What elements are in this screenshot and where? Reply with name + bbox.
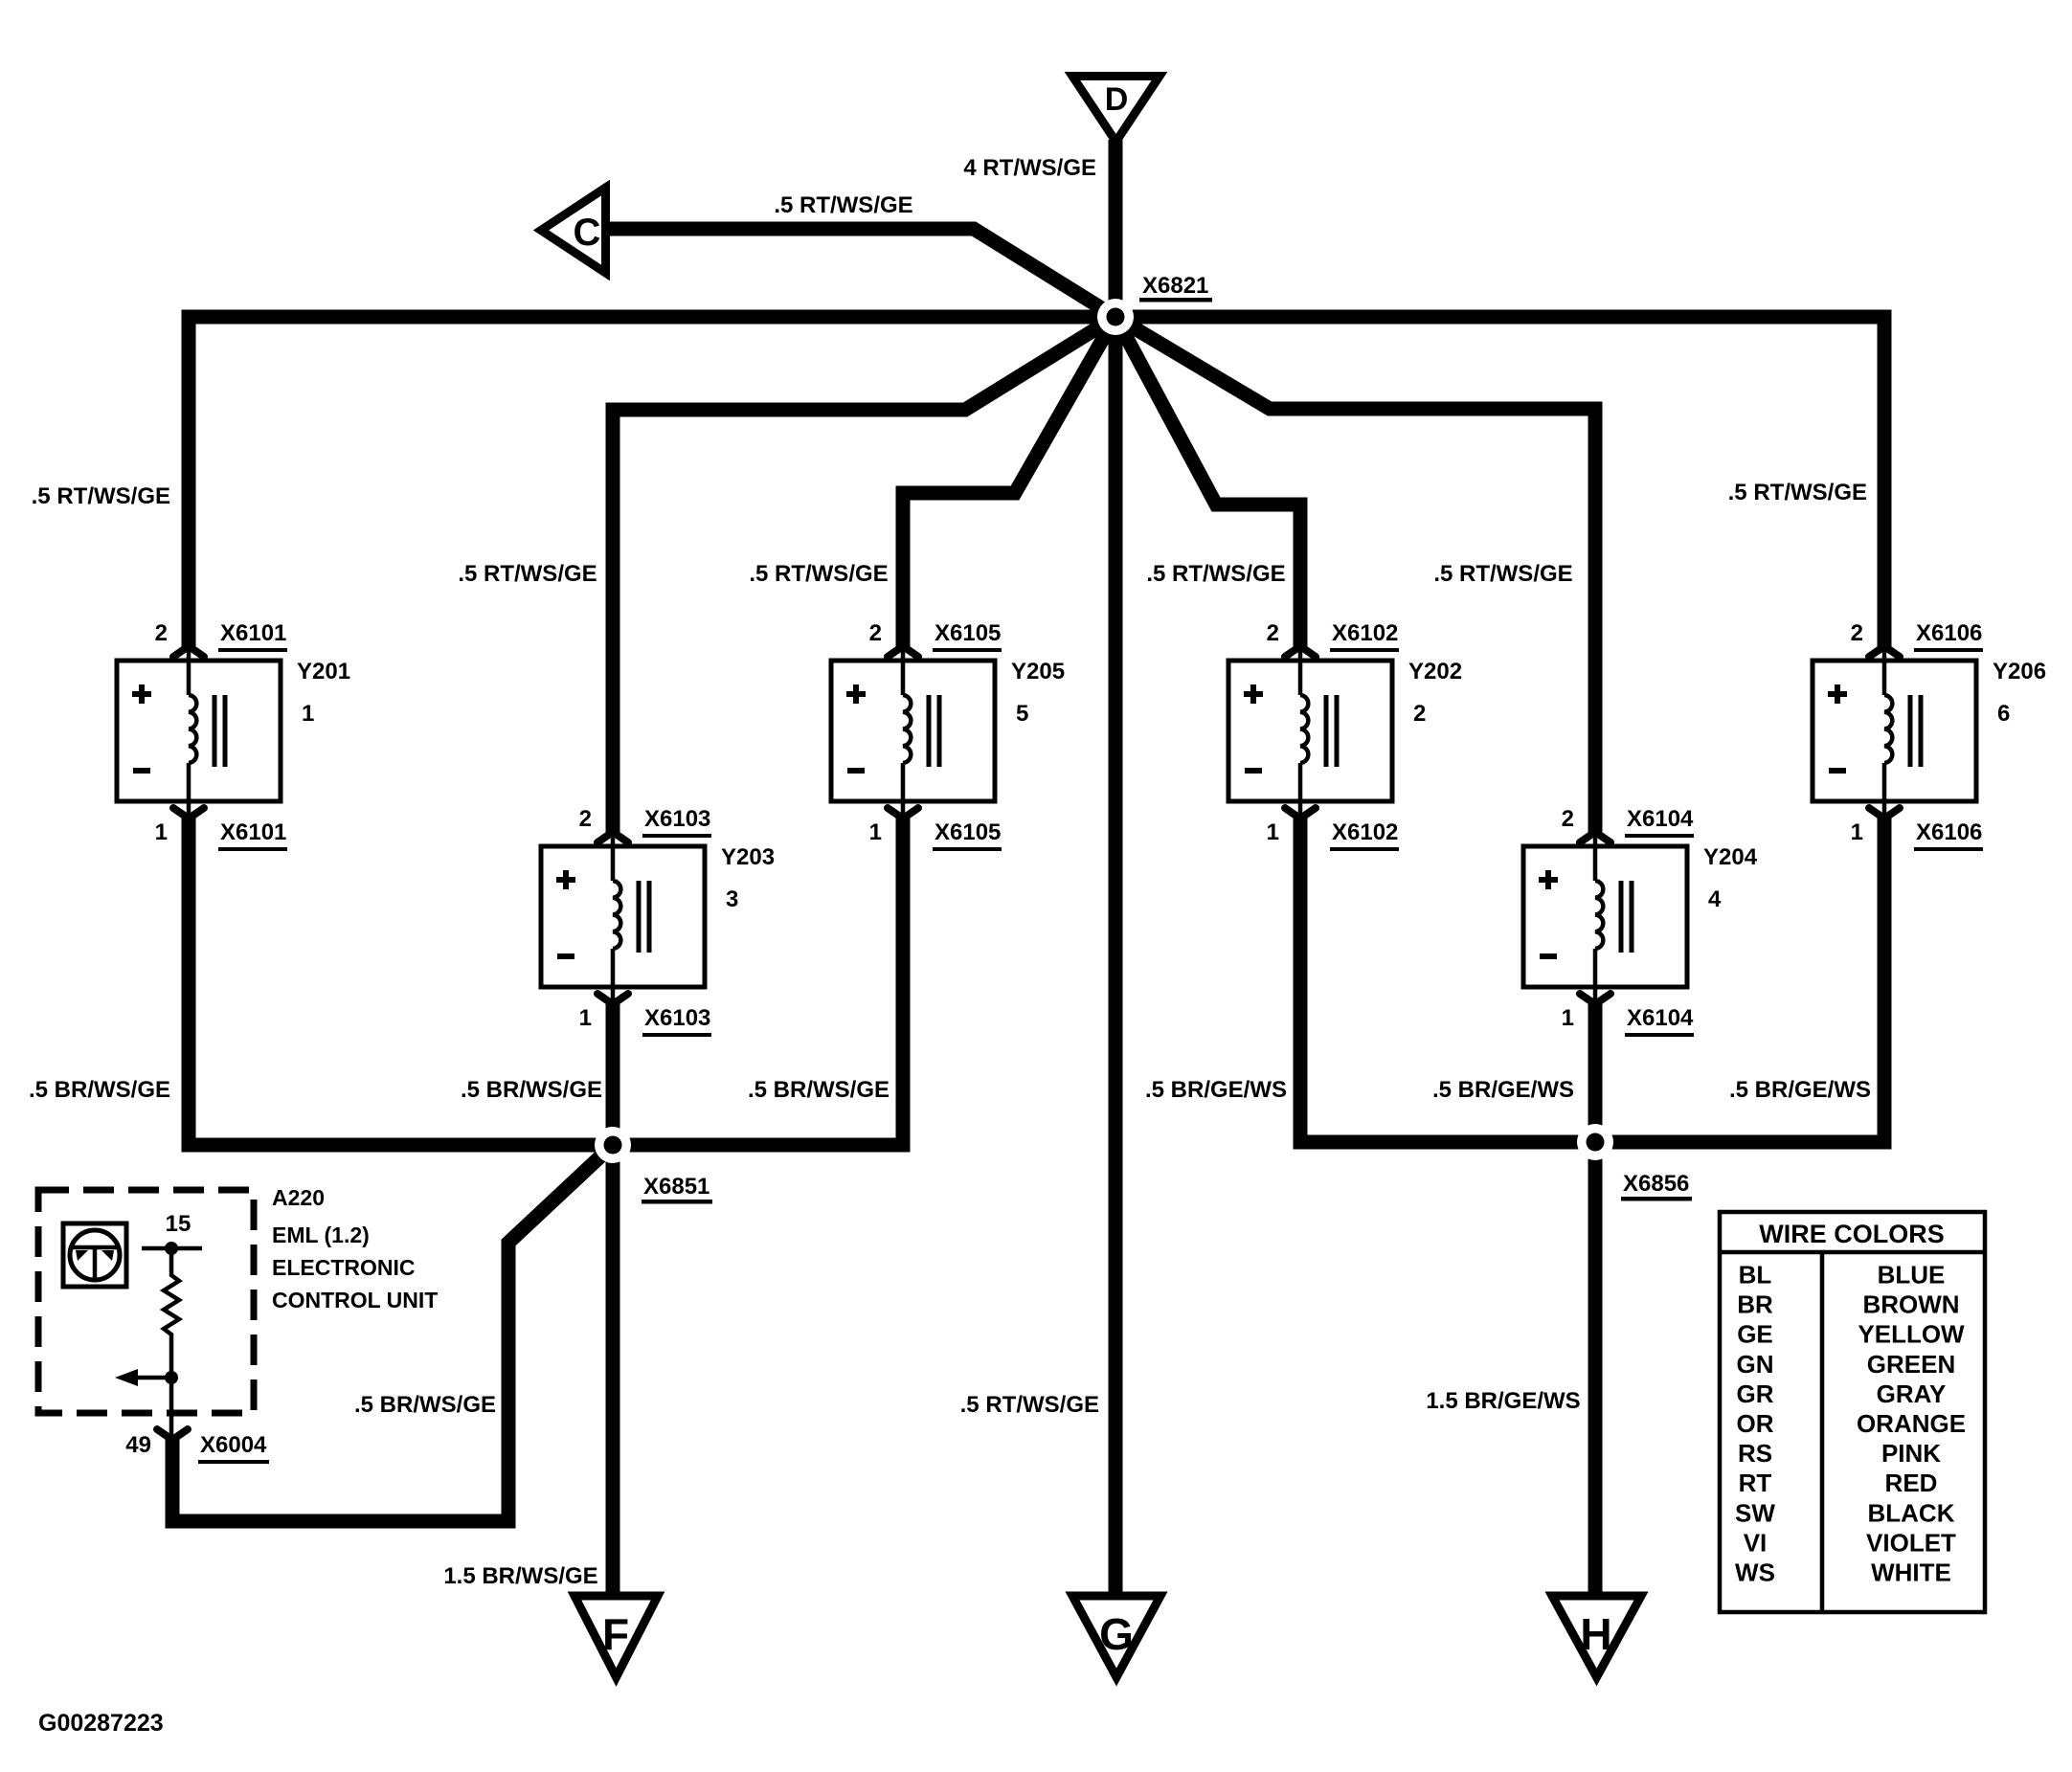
svg-text:GR: GR — [1737, 1379, 1774, 1408]
fuel injector Y203 (cylinder 3) — [541, 844, 775, 987]
svg-text:WS: WS — [1735, 1559, 1775, 1587]
wire .5 RT/WS/GE to Y202 pin 2 — [1115, 317, 1300, 646]
svg-text:D: D — [1105, 81, 1129, 118]
wire 4 RT/WS/GE trunk from D down to G — [1109, 140, 1123, 1594]
ECU internal node with arrow — [115, 1369, 178, 1386]
svg-text:BL: BL — [1739, 1261, 1772, 1290]
pin 2 connector X6104 of Y204 — [1562, 806, 1694, 846]
wire .5 RT/WS/GE right main to Y206 pin 2 — [1115, 317, 1884, 646]
svg-text:X6103: X6103 — [644, 1005, 710, 1031]
svg-text:X6856: X6856 — [1623, 1171, 1689, 1197]
svg-text:BLUE: BLUE — [1878, 1261, 1946, 1290]
svg-text:G00287223: G00287223 — [38, 1710, 164, 1737]
pin 1 connector X6103 of Y203 — [579, 987, 711, 1037]
svg-text:Y203: Y203 — [721, 844, 775, 870]
svg-text:GREEN: GREEN — [1867, 1350, 1955, 1379]
wire .5 BR/WS/GE left bus Y201 to X6851 to Y205 — [189, 817, 903, 1145]
connector arrow G — [1072, 1596, 1160, 1677]
svg-text:.5 RT/WS/GE: .5 RT/WS/GE — [1146, 561, 1285, 587]
svg-text:A220: A220 — [272, 1185, 325, 1210]
pin 1 connector X6105 of Y205 — [869, 801, 1002, 851]
svg-text:1.5 BR/WS/GE: 1.5 BR/WS/GE — [443, 1563, 597, 1589]
svg-text:WHITE: WHITE — [1871, 1559, 1951, 1587]
svg-text:Y204: Y204 — [1703, 844, 1758, 870]
svg-text:.5 BR/GE/WS: .5 BR/GE/WS — [1729, 1077, 1871, 1103]
wire .5 BR/GE/WS Y204 pin 1 to X6856 — [1588, 1002, 1603, 1142]
svg-text:.5 RT/WS/GE: .5 RT/WS/GE — [1728, 480, 1867, 505]
svg-text:SW: SW — [1735, 1498, 1775, 1527]
svg-text:.5 BR/WS/GE: .5 BR/WS/GE — [461, 1077, 602, 1103]
svg-text:2: 2 — [869, 620, 882, 646]
svg-text:.5 BR/WS/GE: .5 BR/WS/GE — [354, 1392, 496, 1418]
svg-text:X6101: X6101 — [220, 819, 286, 845]
wire .5 BR/WS/GE Y203 pin 1 to X6851 — [606, 1002, 620, 1145]
svg-text:X6821: X6821 — [1142, 273, 1208, 299]
fuel injector Y202 (cylinder 2) — [1228, 659, 1462, 801]
connector arrow D — [1072, 77, 1160, 143]
wire colors legend table — [1720, 1212, 1985, 1612]
svg-text:2: 2 — [1267, 620, 1279, 646]
svg-text:2: 2 — [1851, 620, 1863, 646]
svg-text:.5 RT/WS/GE: .5 RT/WS/GE — [458, 561, 597, 587]
svg-text:X6102: X6102 — [1332, 819, 1398, 845]
pin 2 connector X6105 of Y205 — [869, 620, 1002, 661]
svg-text:GRAY: GRAY — [1877, 1379, 1947, 1408]
svg-text:X6104: X6104 — [1627, 1005, 1694, 1031]
svg-text:X6101: X6101 — [220, 620, 286, 646]
ECU pin 15 terminal — [142, 1211, 202, 1255]
svg-text:6: 6 — [1997, 701, 2010, 727]
svg-text:2: 2 — [1562, 806, 1574, 832]
wire 1.5 BR/GE/WS X6856 to H — [1588, 1142, 1603, 1594]
svg-text:RS: RS — [1738, 1439, 1772, 1468]
svg-text:4 RT/WS/GE: 4 RT/WS/GE — [963, 155, 1096, 181]
svg-text:CONTROL UNIT: CONTROL UNIT — [272, 1288, 438, 1312]
svg-text:1: 1 — [155, 819, 168, 845]
svg-text:4: 4 — [1708, 886, 1722, 912]
connector arrow F — [574, 1596, 658, 1677]
svg-text:.5 BR/GE/WS: .5 BR/GE/WS — [1432, 1077, 1574, 1103]
svg-text:.5 RT/WS/GE: .5 RT/WS/GE — [749, 561, 888, 587]
svg-text:5: 5 — [1016, 701, 1028, 727]
svg-text:Y205: Y205 — [1011, 659, 1065, 684]
pin 2 connector X6106 of Y206 — [1851, 620, 1983, 661]
pin 49 connector X6004 — [125, 1429, 269, 1464]
svg-text:2: 2 — [579, 806, 592, 832]
svg-text:X6103: X6103 — [644, 806, 710, 832]
svg-text:X6104: X6104 — [1627, 806, 1694, 832]
svg-text:X6851: X6851 — [643, 1174, 709, 1200]
svg-text:BLACK: BLACK — [1868, 1498, 1955, 1527]
svg-text:1: 1 — [302, 701, 314, 727]
svg-text:F: F — [602, 1609, 629, 1659]
pin 1 connector X6101 of Y201 — [155, 801, 287, 851]
wire .5 RT/WS/GE to Y203 pin 2 — [613, 317, 1115, 832]
electronic control unit A220 EML (1.2) dashed outline — [38, 1190, 254, 1413]
wire 1.5 BR/WS/GE X6851 to F — [606, 1145, 620, 1594]
connector arrow H — [1552, 1596, 1641, 1677]
label A220 EML (1.2) ELECTRONIC CONTROL UNIT — [272, 1185, 438, 1312]
wire .5 RT/WS/GE to Y204 pin 2 — [1115, 317, 1595, 832]
svg-text:X6105: X6105 — [935, 819, 1001, 845]
svg-text:.5 RT/WS/GE: .5 RT/WS/GE — [774, 192, 912, 218]
svg-text:ORANGE: ORANGE — [1857, 1409, 1966, 1438]
svg-text:VI: VI — [1744, 1528, 1768, 1557]
wire .5 RT/WS/GE to Y205 pin 2 — [903, 317, 1115, 646]
svg-text:.5 RT/WS/GE: .5 RT/WS/GE — [32, 483, 170, 509]
svg-text:1: 1 — [579, 1005, 592, 1031]
wire .5 BR/WS/GE X6851 to ECU pin 49 — [172, 1145, 613, 1521]
svg-text:15: 15 — [166, 1211, 191, 1237]
svg-text:.5 BR/WS/GE: .5 BR/WS/GE — [748, 1077, 890, 1103]
connector arrow C — [541, 188, 606, 273]
svg-text:RED: RED — [1885, 1469, 1938, 1497]
svg-text:Y202: Y202 — [1408, 659, 1462, 684]
svg-text:.5 BR/GE/WS: .5 BR/GE/WS — [1145, 1077, 1287, 1103]
svg-text:.5 BR/WS/GE: .5 BR/WS/GE — [29, 1077, 170, 1103]
fuel injector Y204 (cylinder 4) — [1523, 844, 1758, 987]
svg-text:49: 49 — [125, 1432, 151, 1458]
svg-text:X6004: X6004 — [200, 1432, 267, 1458]
svg-text:WIRE COLORS: WIRE COLORS — [1759, 1220, 1945, 1248]
junction X6851 (splice) — [595, 1127, 712, 1204]
svg-text:BROWN: BROWN — [1862, 1290, 1959, 1319]
svg-text:ELECTRONIC: ELECTRONIC — [272, 1255, 416, 1280]
svg-text:.5 RT/WS/GE: .5 RT/WS/GE — [960, 1392, 1099, 1418]
svg-text:H: H — [1580, 1609, 1611, 1659]
svg-text:YELLOW: YELLOW — [1858, 1320, 1965, 1349]
svg-text:1: 1 — [1267, 819, 1279, 845]
svg-text:X6102: X6102 — [1332, 620, 1398, 646]
wire .5 RT/WS/GE from X6821 to connector C — [607, 229, 1115, 317]
wire .5 BR/GE/WS right bus Y202 to X6856 to Y206 — [1300, 817, 1884, 1142]
junction X6821 (splice) — [1097, 273, 1212, 335]
svg-text:Y206: Y206 — [1993, 659, 2046, 684]
ECU symbol (control unit icon) — [63, 1223, 126, 1287]
svg-text:C: C — [574, 212, 601, 254]
svg-text:G: G — [1099, 1609, 1134, 1659]
svg-text:VIOLET: VIOLET — [1866, 1528, 1956, 1557]
svg-text:RT: RT — [1739, 1469, 1772, 1497]
fuel injector Y201 (cylinder 1) — [117, 659, 350, 801]
svg-text:2: 2 — [155, 620, 168, 646]
svg-text:3: 3 — [726, 886, 738, 912]
pin 2 connector X6103 of Y203 — [579, 806, 711, 846]
svg-text:X6105: X6105 — [935, 620, 1001, 646]
svg-text:.5 RT/WS/GE: .5 RT/WS/GE — [1433, 561, 1572, 587]
svg-text:BR: BR — [1737, 1290, 1773, 1319]
svg-text:1: 1 — [1851, 819, 1863, 845]
svg-text:X6106: X6106 — [1916, 620, 1982, 646]
pin 1 connector X6106 of Y206 — [1851, 801, 1983, 851]
pin 1 connector X6104 of Y204 — [1562, 987, 1694, 1037]
svg-text:1: 1 — [869, 819, 882, 845]
svg-text:GE: GE — [1737, 1320, 1773, 1349]
wire .5 RT/WS/GE left main to Y201 pin 2 — [189, 317, 1115, 646]
svg-text:X6106: X6106 — [1916, 819, 1982, 845]
junction X6856 (splice) — [1577, 1124, 1692, 1201]
svg-text:EML (1.2): EML (1.2) — [272, 1222, 370, 1247]
pin 1 connector X6102 of Y202 — [1267, 801, 1399, 851]
pin 2 connector X6102 of Y202 — [1267, 620, 1399, 661]
svg-text:1.5 BR/GE/WS: 1.5 BR/GE/WS — [1426, 1388, 1580, 1414]
svg-text:1: 1 — [1562, 1005, 1574, 1031]
fuel injector Y205 (cylinder 5) — [831, 659, 1065, 801]
pin 2 connector X6101 of Y201 — [155, 620, 287, 661]
svg-text:2: 2 — [1413, 701, 1426, 727]
fuel injector Y206 (cylinder 6) — [1813, 659, 2046, 801]
svg-text:GN: GN — [1737, 1350, 1774, 1379]
svg-text:PINK: PINK — [1881, 1439, 1941, 1468]
svg-text:OR: OR — [1737, 1409, 1774, 1438]
ECU internal resistor — [164, 1248, 179, 1440]
svg-text:Y201: Y201 — [297, 659, 350, 684]
